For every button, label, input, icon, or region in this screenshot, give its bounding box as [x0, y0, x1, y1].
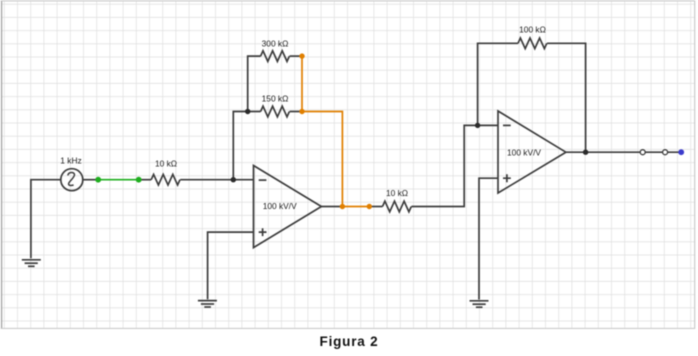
wire: R1 to node A: [180, 179, 233, 181]
orange dot output left: [340, 204, 345, 209]
svg-text:10 kΩ: 10 kΩ: [155, 159, 177, 169]
ground GND2: [198, 301, 217, 307]
wire: orange feedback riser from R2/R3 to output row: [302, 56, 342, 206]
wire: orange node to R4: [369, 206, 382, 208]
resistor R1 10k zigzag: [151, 174, 180, 185]
resistor R5 100k zigzag: [518, 38, 547, 49]
wire: feedback left riser: [478, 43, 518, 125]
wire: node A to op-amp U1 minus: [233, 179, 253, 181]
blue terminal: [678, 149, 684, 155]
wire: source left lead to ground corner: [31, 180, 61, 259]
wire: 150k node right lead: [248, 111, 261, 113]
svg-text:10 kΩ: 10 kΩ: [386, 188, 408, 198]
wire: 150k node up to 300k row: [248, 56, 261, 111]
orange dot 300k: [299, 53, 304, 58]
source V1 sine symbol: [68, 173, 75, 186]
resistor R3 300k zigzag: [261, 51, 290, 62]
border left: [1, 1, 3, 329]
op-amp U1 minus sign: [259, 179, 267, 181]
wire: source right lead: [83, 179, 98, 181]
wire: U2 output to terminals: [566, 151, 640, 153]
wire: U1 plus to ground corner: [208, 232, 254, 299]
svg-text:100 kV/V: 100 kV/V: [507, 148, 541, 158]
svg-text:300 kΩ: 300 kΩ: [262, 39, 289, 49]
wire: green probe segment: [98, 179, 139, 181]
wire: node A up-jog to 150k node: [233, 112, 247, 180]
150k node junction dot: [245, 109, 250, 114]
ground GND1: [22, 260, 41, 267]
orange dot 150k: [299, 109, 304, 114]
green probe dot left: [95, 177, 101, 183]
wire: R3 right lead: [290, 55, 302, 57]
op-amp U2 triangle: [498, 111, 566, 193]
node A junction dot: [231, 177, 236, 182]
op-amp U1 plus sign: [259, 228, 267, 236]
svg-text:100 kV/V: 100 kV/V: [263, 201, 297, 211]
svg-text:1 kHz: 1 kHz: [60, 156, 81, 166]
wire: U1 output to orange node: [321, 206, 342, 208]
green probe dot right: [136, 177, 142, 183]
wire: U2 plus to ground corner: [479, 178, 498, 299]
wire: R5 to output node: [547, 43, 586, 152]
op-amp U1 triangle: [254, 166, 322, 248]
open terminal 2: [663, 150, 668, 155]
wire: between terminals: [645, 151, 678, 153]
border bottom: [1, 327, 695, 329]
wire: node B to U2 minus: [478, 124, 498, 126]
orange dot output right: [367, 204, 372, 209]
border top: [1, 0, 695, 2]
wire: green dot to R1: [139, 179, 152, 181]
op-amp U2 plus sign: [503, 174, 511, 182]
node B junction dot: [475, 123, 480, 128]
resistor R4 10k zigzag: [383, 201, 412, 212]
source V1 circle: [61, 169, 83, 191]
resistor R2 150k zigzag: [261, 106, 290, 117]
output node junction dot: [583, 150, 588, 155]
open terminal 1: [640, 150, 645, 155]
wire: R2 right lead: [290, 111, 302, 113]
border right: [694, 1, 696, 329]
ground GND3: [470, 301, 489, 307]
svg-text:100 kΩ: 100 kΩ: [519, 25, 546, 35]
svg-text:Figura 2: Figura 2: [320, 334, 379, 349]
wire: orange output segment: [342, 206, 369, 208]
wire: R4 to op-amp U2 minus riser: [412, 125, 478, 206]
op-amp U2 minus sign: [503, 124, 511, 126]
svg-text:150 kΩ: 150 kΩ: [262, 94, 289, 104]
